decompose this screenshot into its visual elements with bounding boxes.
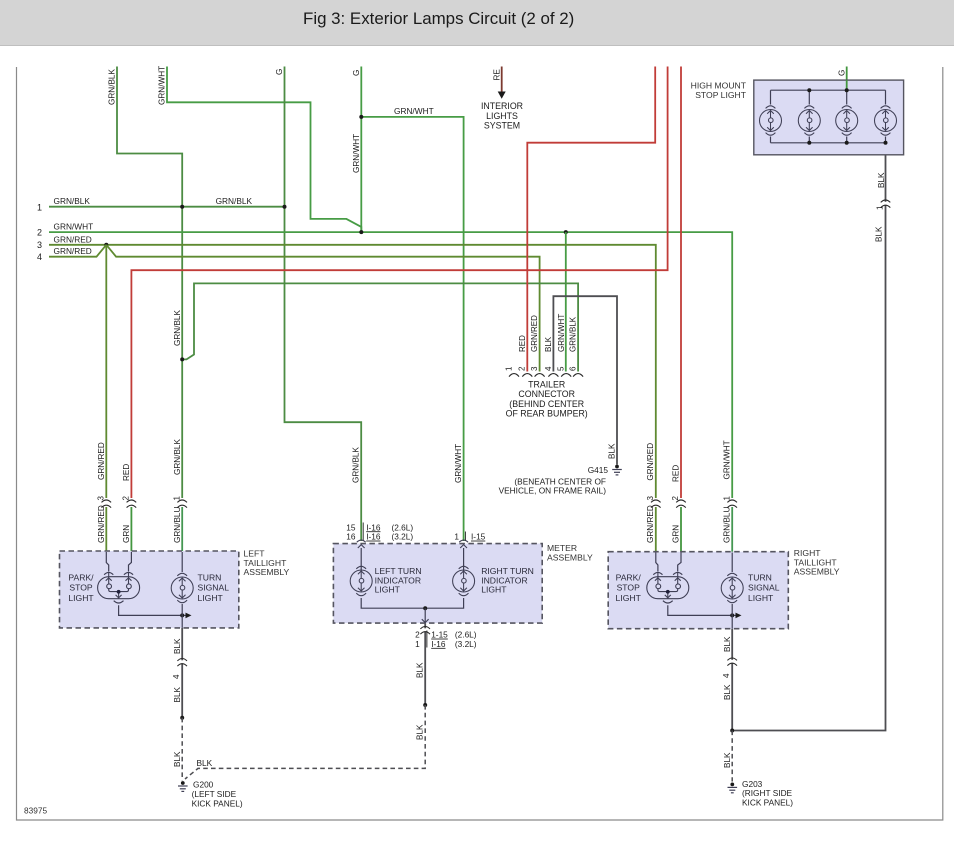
break connector right GRN/BLU pin1 (731, 502, 734, 505)
meter left entry connector (357, 540, 366, 548)
svg-text:5: 5 (557, 366, 566, 371)
wire BLK right taillight down (731, 629, 733, 731)
wire trailer pin5 GRN/WHT drop (565, 232, 567, 371)
wire RED to trailer pin2 (527, 67, 655, 372)
wire G vertical x284 from top through row1 to meter left turn indicator (285, 67, 362, 542)
svg-text:(RIGHT SIDE: (RIGHT SIDE (742, 788, 793, 798)
svg-text:1: 1 (504, 366, 513, 371)
break connector left GRN pin2 (130, 502, 133, 505)
svg-text:GRN/RED: GRN/RED (646, 505, 655, 543)
svg-text:PARK/: PARK/ (616, 573, 642, 583)
svg-text:OF REAR BUMPER): OF REAR BUMPER) (506, 408, 588, 418)
break connector left GRN/RED pin3 (105, 502, 108, 505)
svg-text:GRN/BLK: GRN/BLK (352, 447, 361, 483)
svg-text:1: 1 (415, 639, 420, 649)
high mount bulb 2 (798, 106, 820, 135)
right turn signal feed inside box (731, 553, 733, 573)
right turn indicator light bulb (453, 566, 475, 595)
svg-text:BLK: BLK (173, 638, 182, 654)
svg-text:GRN/RED: GRN/RED (530, 315, 539, 352)
svg-text:BLK: BLK (173, 686, 182, 702)
svg-text:GRN/WHT: GRN/WHT (723, 440, 732, 479)
right park/stop pin wires (656, 553, 658, 572)
svg-text:TURN: TURN (198, 573, 222, 583)
high mount bulb 1 feed (770, 90, 772, 143)
svg-text:GRN/WHT: GRN/WHT (557, 314, 566, 352)
svg-text:GRN/BLU: GRN/BLU (173, 507, 182, 543)
svg-text:ASSEMBLY: ASSEMBLY (547, 552, 593, 562)
wire row2 GRN/WHT to right turn signal (49, 232, 732, 498)
svg-text:(BEHIND CENTER: (BEHIND CENTER (509, 399, 584, 409)
svg-text:GRN/RED: GRN/RED (646, 443, 655, 481)
right turn signal light bulb (721, 573, 743, 602)
svg-text:GRN/WHT: GRN/WHT (394, 106, 434, 116)
svg-text:GRN/BLK: GRN/BLK (173, 439, 182, 475)
node dot right BLK splice (730, 729, 734, 733)
svg-text:4: 4 (722, 673, 731, 678)
right taillight assembly box (608, 552, 788, 629)
wire row4 GRN/RED to trailer pin3 (49, 245, 540, 372)
wire GRN high mount feed (846, 67, 848, 91)
high mount bulb 3 (836, 106, 858, 135)
svg-text:3: 3 (646, 496, 655, 501)
wire GRN/BLU right turn below break (731, 507, 733, 553)
high mount green feed inside box (846, 80, 848, 90)
wire GRN/WHT branch to meter right turn indicator (361, 117, 463, 541)
svg-text:PARK/: PARK/ (68, 573, 94, 583)
right park/stop light bulb (647, 572, 689, 603)
svg-text:1: 1 (722, 496, 731, 501)
svg-text:LIGHT: LIGHT (748, 593, 774, 603)
svg-text:BLK: BLK (416, 662, 425, 678)
left ground bus with arrow (119, 605, 186, 615)
wire GRN left park/stop below break (130, 507, 132, 552)
break connector meter BLK (424, 628, 427, 631)
svg-text:GRN/RED: GRN/RED (97, 442, 106, 480)
svg-text:VEHICLE, ON FRAME RAIL): VEHICLE, ON FRAME RAIL) (499, 485, 607, 495)
svg-text:INTERIOR: INTERIOR (481, 101, 523, 111)
node dot row2 junction x361 (359, 230, 363, 234)
svg-text:STOP: STOP (69, 583, 93, 593)
svg-text:LIGHTS: LIGHTS (486, 111, 518, 121)
svg-text:I-15: I-15 (471, 532, 486, 542)
svg-text:RED: RED (518, 335, 527, 352)
left turn bulb to box bottom (181, 604, 183, 628)
left turn signal light bulb (171, 573, 193, 602)
svg-text:G: G (352, 70, 361, 76)
wire row1 GRN/BLK (49, 206, 285, 208)
node dot splice x182 y359 (180, 357, 184, 361)
meter right entry connector (459, 540, 468, 548)
svg-text:LIGHT: LIGHT (375, 585, 401, 595)
svg-text:GRN: GRN (122, 525, 131, 543)
svg-text:CONNECTOR: CONNECTOR (518, 389, 575, 399)
svg-text:BLK: BLK (197, 758, 213, 768)
svg-text:6: 6 (569, 366, 578, 371)
wire trailer pin6 GRN/BLK loop to left turn drop (182, 283, 578, 371)
break connector right BLK (731, 660, 734, 663)
high mount top bus (771, 89, 886, 91)
svg-text:ASSEMBLY: ASSEMBLY (794, 567, 840, 577)
wire BLK dashed to ground G203 (731, 731, 733, 782)
wire GRN right park/stop below break (680, 507, 682, 553)
wire GRN/BLK from top to left turn signal (node drop x182) (117, 67, 182, 499)
high mount bulb 4 (875, 106, 897, 135)
svg-text:(3.2L): (3.2L) (455, 639, 477, 649)
svg-text:GRN/WHT: GRN/WHT (158, 66, 167, 105)
node dot row1 x284 (283, 205, 287, 209)
right ground bus with arrow (668, 605, 736, 615)
high mount bulb 3 feed (846, 90, 848, 143)
svg-text:SIGNAL: SIGNAL (198, 583, 230, 593)
svg-text:RED: RED (122, 464, 131, 481)
svg-text:BLK: BLK (723, 752, 732, 768)
wire BLK meter assembly down (424, 623, 426, 705)
svg-text:2: 2 (671, 496, 680, 501)
svg-text:LIGHT: LIGHT (68, 593, 94, 603)
svg-text:(LEFT SIDE: (LEFT SIDE (192, 789, 237, 799)
svg-text:RE: RE (492, 69, 501, 81)
svg-text:1: 1 (876, 205, 885, 210)
svg-text:I-16: I-16 (366, 532, 381, 542)
svg-text:ASSEMBLY: ASSEMBLY (244, 567, 290, 577)
svg-text:4: 4 (37, 252, 42, 262)
high mount bulb 2 feed (808, 90, 810, 143)
wire RED to left park/stop (131, 67, 667, 499)
svg-text:GRN/BLK: GRN/BLK (173, 310, 182, 346)
meter left feed inside (360, 548, 362, 572)
svg-text:2: 2 (518, 366, 527, 371)
meter right feed inside (463, 548, 465, 572)
svg-text:GRN/RED: GRN/RED (54, 234, 92, 244)
wire RED to right park/stop (680, 67, 682, 499)
high mount bottom bus (771, 142, 886, 144)
svg-text:BLK: BLK (415, 724, 424, 740)
svg-text:2: 2 (37, 228, 42, 238)
svg-text:G415: G415 (588, 465, 609, 475)
meter assembly box (333, 544, 542, 624)
svg-text:GRN: GRN (671, 525, 680, 543)
svg-text:GRN/BLK: GRN/BLK (569, 316, 578, 352)
meter ground bus (361, 598, 463, 608)
svg-text:BLK: BLK (875, 226, 884, 242)
high mount stop light box (754, 80, 904, 155)
wire GRN/RED right below break (655, 507, 657, 553)
svg-text:4: 4 (544, 366, 553, 371)
wire BLK left taillight down (181, 628, 183, 718)
svg-text:3: 3 (97, 496, 106, 501)
wire BLK high mount stop light to right splice (732, 155, 886, 731)
wire GRN/BLU left turn signal below break (181, 507, 183, 552)
wire BLK meter dashed to G200 (185, 705, 425, 779)
wire row3 GRN/RED to right park/stop (49, 245, 656, 498)
svg-text:BLK: BLK (877, 172, 886, 188)
svg-text:LIGHT: LIGHT (616, 593, 642, 603)
svg-text:BLK: BLK (544, 336, 553, 352)
svg-text:1: 1 (37, 203, 42, 213)
svg-text:(3.2L): (3.2L) (392, 532, 414, 542)
svg-text:G200: G200 (193, 780, 214, 790)
left turn indicator light bulb (350, 566, 372, 595)
node dot row1 x182 (180, 205, 184, 209)
wire GRN/WHT from top with jog to row2 (167, 67, 361, 233)
node dot meter BLK splice (423, 703, 427, 707)
break connector right GRN/RED pin3 (654, 502, 657, 505)
break connector right GRN pin2 (680, 502, 683, 505)
svg-text:GRN/WHT: GRN/WHT (54, 222, 94, 232)
wire BLK trailer pin4 to ground G415 (553, 296, 617, 464)
svg-text:2: 2 (122, 496, 131, 501)
svg-text:SIGNAL: SIGNAL (748, 583, 780, 593)
ground G415 (612, 470, 622, 475)
svg-text:4: 4 (172, 674, 181, 679)
svg-text:TURN: TURN (748, 573, 772, 583)
svg-text:GRN/BLK: GRN/BLK (108, 69, 117, 105)
wire BLK dashed to ground G200 (181, 718, 183, 781)
svg-text:G: G (838, 70, 847, 76)
high mount bulb 4 feed (885, 90, 887, 143)
svg-text:GRN/BLU: GRN/BLU (723, 507, 732, 543)
svg-text:RED: RED (671, 465, 680, 482)
svg-text:83975: 83975 (24, 806, 47, 816)
node dot left BLK splice (180, 716, 184, 720)
ground G203 (728, 787, 738, 792)
svg-text:GRN/BLK: GRN/BLK (216, 196, 253, 206)
left park/stop light bulb (98, 572, 140, 603)
svg-text:BLK: BLK (173, 751, 182, 767)
left park/stop pin wires (106, 552, 108, 572)
svg-text:1: 1 (172, 496, 181, 501)
svg-text:BLK: BLK (608, 443, 617, 459)
svg-text:GRN/RED: GRN/RED (97, 505, 106, 543)
svg-text:GRN/WHT: GRN/WHT (454, 444, 463, 483)
break connector left GRN/BLU pin1 (181, 502, 184, 505)
node dot on x361 at branch (359, 115, 363, 119)
svg-text:16: 16 (346, 532, 356, 542)
svg-text:G: G (275, 69, 284, 75)
node dot row2 trailer branch x565 (564, 230, 568, 234)
meter exit wire with chevron (424, 608, 426, 623)
high mount bulb 1 (760, 106, 782, 135)
interior lights system arrow (501, 67, 503, 93)
ground G200 (178, 786, 188, 791)
title bar (0, 0, 954, 45)
left taillight assembly box (60, 551, 239, 628)
svg-text:BLK: BLK (723, 636, 732, 652)
high mount bus dots (807, 88, 811, 92)
svg-text:3: 3 (37, 240, 42, 250)
svg-text:Fig 3: Exterior Lamps Circuit: Fig 3: Exterior Lamps Circuit (2 of 2) (303, 9, 574, 28)
svg-text:TRAILER: TRAILER (528, 380, 565, 390)
svg-text:SYSTEM: SYSTEM (484, 121, 520, 131)
node dot row3 x106 (104, 243, 108, 247)
trailer connector pins (509, 374, 519, 377)
left turn signal feed inside box (181, 552, 183, 572)
wire GRN/RED left below break (105, 507, 107, 552)
svg-text:I-16: I-16 (431, 639, 446, 649)
svg-text:LIGHT: LIGHT (481, 585, 507, 595)
svg-text:3: 3 (530, 366, 539, 371)
svg-text:GRN/BLK: GRN/BLK (54, 196, 91, 206)
wire G vertical x361 from top to row2 (360, 67, 362, 233)
right turn bulb to box bottom (731, 604, 733, 629)
svg-text:LIGHT: LIGHT (198, 593, 224, 603)
svg-text:KICK PANEL): KICK PANEL) (192, 799, 243, 809)
svg-text:STOP: STOP (617, 583, 641, 593)
svg-text:GRN/RED: GRN/RED (54, 246, 92, 256)
svg-text:KICK PANEL): KICK PANEL) (742, 798, 793, 808)
svg-text:GRN/WHT: GRN/WHT (352, 134, 361, 173)
wire GRN/RED drop to left park/stop (105, 245, 107, 498)
break connector high mount BLK (884, 202, 887, 205)
break connector left BLK (181, 660, 184, 663)
svg-text:BLK: BLK (723, 684, 732, 700)
svg-text:1: 1 (454, 532, 459, 542)
svg-text:STOP LIGHT: STOP LIGHT (695, 90, 747, 100)
